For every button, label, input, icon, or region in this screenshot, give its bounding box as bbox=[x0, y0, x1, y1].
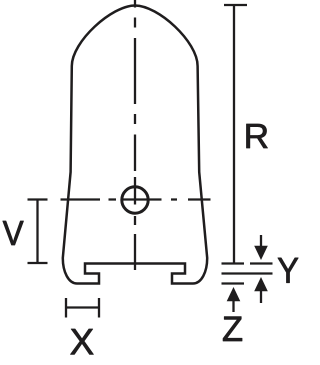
dimension X right tick bbox=[98, 298, 100, 318]
hole bbox=[122, 187, 148, 213]
dimension R line bbox=[233, 5, 235, 264]
Y down arrowhead bbox=[254, 246, 268, 260]
dimension V bottom tick bbox=[28, 262, 48, 264]
dimension R top tick bbox=[224, 4, 247, 6]
dimension R bottom tick / Y upper extension left bbox=[222, 262, 245, 264]
Z up arrowhead bbox=[227, 287, 241, 301]
label V bbox=[3, 221, 24, 245]
dimension V top tick bbox=[28, 198, 48, 200]
Z up arrow stem bbox=[232, 300, 234, 312]
dimension X left tick bbox=[65, 298, 67, 318]
Y upper extension right bbox=[250, 262, 273, 264]
Y down arrow stem bbox=[260, 235, 262, 247]
Y/Z middle extension line bbox=[222, 272, 273, 274]
Y up arrow stem bbox=[260, 290, 262, 303]
dimension V line bbox=[36, 200, 38, 264]
horizontal centerline bbox=[61, 198, 211, 200]
vertical centerline bbox=[134, 0, 136, 270]
dimension X line bbox=[66, 306, 99, 308]
body outline bbox=[63, 6, 207, 284]
label R bbox=[247, 124, 268, 148]
label X bbox=[71, 329, 94, 354]
Y up arrowhead bbox=[254, 277, 268, 291]
Z lower tick bbox=[222, 282, 245, 284]
label Z bbox=[223, 317, 242, 341]
label Y bbox=[278, 258, 298, 283]
